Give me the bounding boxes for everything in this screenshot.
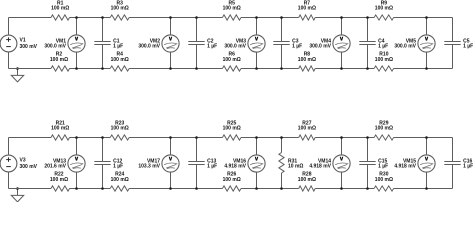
node VM2 top junction: [169, 16, 172, 19]
label C5 value: [463, 39, 473, 50]
voltmeter VM15: [418, 138, 435, 189]
node C12 bottom junction: [101, 187, 104, 190]
svg-text:300 mV: 300 mV: [20, 44, 38, 50]
resistor R5: [222, 15, 241, 20]
svg-text:V1: V1: [20, 37, 26, 43]
resistor R2: [51, 66, 70, 71]
wire bottom rail segment 3 (bottom circuit): [129, 188, 222, 190]
node C12 top junction: [101, 136, 104, 139]
label R21 value: [51, 120, 69, 131]
svg-text:100 mΩ: 100 mΩ: [111, 57, 129, 63]
svg-text:300.0 mV: 300.0 mV: [224, 44, 246, 50]
svg-text:100 mΩ: 100 mΩ: [298, 126, 316, 132]
svg-text:1 µF: 1 µF: [113, 44, 123, 50]
node C1 top junction: [101, 16, 104, 19]
label VM5 reading: [394, 39, 416, 50]
label V1 value: [20, 37, 38, 50]
svg-text:1 µF: 1 µF: [378, 44, 388, 50]
resistor R6: [222, 66, 241, 71]
label R8 value: [298, 52, 316, 64]
node VM13 top junction: [75, 136, 78, 139]
svg-text:100 mΩ: 100 mΩ: [223, 57, 241, 63]
svg-text:4.918 mV: 4.918 mV: [394, 164, 416, 170]
label R3 value: [111, 0, 129, 11]
wire bottom rail segment 5 (top circuit): [315, 68, 374, 70]
voltmeter VM4: [333, 18, 350, 69]
node VM3 bottom junction: [255, 67, 258, 70]
label R31 value: [288, 159, 303, 170]
resistor R24: [110, 186, 129, 191]
label R26 value: [223, 172, 241, 184]
wire top rail segment 4 (bottom circuit): [241, 137, 299, 139]
wire bottom rail segment 6 (top circuit): [394, 68, 453, 70]
label R5 value: [223, 0, 241, 11]
svg-text:1 µF: 1 µF: [463, 44, 473, 50]
node C13 bottom junction: [195, 187, 198, 190]
label VM15 reading: [394, 159, 416, 170]
label C4 value: [378, 39, 388, 50]
wire bottom rail segment 3 (top circuit): [129, 68, 222, 70]
capacitor C1: [94, 18, 110, 69]
capacitor C16: [444, 138, 460, 189]
wire bottom rail segment 4 (bottom circuit): [241, 188, 299, 190]
voltmeter VM13: [68, 138, 85, 189]
svg-text:1 µF: 1 µF: [292, 44, 302, 50]
voltmeter VM1: [68, 18, 85, 69]
node ground junction: [16, 187, 19, 190]
node VM2 bottom junction: [169, 67, 172, 70]
wire top rail segment 3 (top circuit): [129, 17, 222, 19]
capacitor C5: [444, 18, 460, 69]
svg-text:1 µF: 1 µF: [113, 164, 123, 170]
svg-text:100 mΩ: 100 mΩ: [223, 6, 241, 12]
label R6 value: [223, 52, 241, 64]
label R1 value: [51, 0, 69, 11]
voltage source V3: [0, 138, 17, 189]
node C15 bottom junction: [366, 187, 369, 190]
node VM1 top junction: [75, 16, 78, 19]
svg-text:100 mΩ: 100 mΩ: [50, 177, 68, 183]
label VM17 reading: [138, 159, 160, 170]
node VM14 top junction: [340, 136, 343, 139]
label C1 value: [113, 39, 123, 50]
resistor R8: [299, 66, 316, 71]
node VM15 top junction: [425, 136, 428, 139]
resistor R3: [110, 15, 129, 20]
label R10 value: [375, 52, 393, 64]
svg-text:10 mΩ: 10 mΩ: [288, 164, 303, 170]
capacitor C2: [188, 18, 204, 69]
ground: [11, 69, 23, 82]
label C3 value: [292, 39, 302, 50]
voltmeter VM2: [162, 18, 179, 69]
svg-text:4.918 mV: 4.918 mV: [309, 164, 331, 170]
resistor R21: [51, 135, 70, 140]
label R27 value: [298, 120, 316, 131]
node C2 top junction: [195, 16, 198, 19]
node C13 top junction: [195, 136, 198, 139]
wire bottom rail segment 6 (bottom circuit): [394, 188, 453, 190]
wire top rail segment 3 (bottom circuit): [129, 137, 222, 139]
wire bottom rail segment 2 (bottom circuit): [70, 188, 111, 190]
label R22 value: [50, 172, 68, 184]
wire bottom rail segment 2 (top circuit): [70, 68, 111, 70]
node C4 bottom junction: [366, 67, 369, 70]
svg-text:100 mΩ: 100 mΩ: [375, 6, 393, 12]
capacitor C15: [359, 138, 375, 189]
capacitor C4: [359, 18, 375, 69]
node VM16 top junction: [255, 136, 258, 139]
svg-text:201.6 mV: 201.6 mV: [44, 164, 66, 170]
svg-text:103.3 mV: 103.3 mV: [138, 164, 160, 170]
svg-text:100 mΩ: 100 mΩ: [111, 177, 129, 183]
wire top rail segment 1 (top circuit): [9, 17, 52, 19]
node VM3 top junction: [255, 16, 258, 19]
resistor R30: [374, 186, 394, 191]
svg-text:300.0 mV: 300.0 mV: [309, 44, 331, 50]
ground: [11, 189, 23, 202]
resistor R1: [51, 15, 70, 20]
svg-text:100 mΩ: 100 mΩ: [50, 57, 68, 63]
svg-text:100 mΩ: 100 mΩ: [375, 126, 393, 132]
svg-text:100 mΩ: 100 mΩ: [375, 57, 393, 63]
wire bottom rail segment 1 (bottom circuit): [9, 188, 52, 190]
wire top rail segment 6 (top circuit): [394, 17, 453, 19]
label VM16 reading: [224, 159, 246, 170]
resistor R25: [222, 135, 241, 140]
wire top rail segment 4 (top circuit): [241, 17, 299, 19]
label R28 value: [298, 172, 316, 184]
resistor R31 (shunt): [279, 138, 284, 189]
label VM13 reading: [44, 159, 66, 170]
svg-text:100 mΩ: 100 mΩ: [111, 126, 129, 132]
resistor R26: [222, 186, 241, 191]
node R31 bottom junction: [280, 187, 283, 190]
label VM4 reading: [309, 39, 331, 50]
resistor R10: [374, 66, 394, 71]
label R7 value: [298, 0, 316, 11]
label R24 value: [111, 172, 129, 184]
label C13 value: [207, 159, 217, 170]
resistor R4: [110, 66, 129, 71]
voltage source V1: [0, 18, 17, 69]
wire bottom rail segment 5 (bottom circuit): [315, 188, 374, 190]
node VM16 bottom junction: [255, 187, 258, 190]
wire top rail segment 5 (bottom circuit): [315, 137, 374, 139]
wire top rail segment 2 (bottom circuit): [70, 137, 111, 139]
svg-text:100 mΩ: 100 mΩ: [111, 6, 129, 12]
node VM15 bottom junction: [425, 187, 428, 190]
node C2 bottom junction: [195, 67, 198, 70]
node C1 bottom junction: [101, 67, 104, 70]
node C3 top junction: [280, 16, 283, 19]
label R2 value: [50, 52, 68, 64]
node C3 bottom junction: [280, 67, 283, 70]
voltmeter VM5: [418, 18, 435, 69]
svg-text:100 mΩ: 100 mΩ: [51, 6, 69, 12]
node VM17 bottom junction: [169, 187, 172, 190]
svg-text:100 mΩ: 100 mΩ: [298, 57, 316, 63]
svg-text:100 mΩ: 100 mΩ: [298, 6, 316, 12]
label C12 value: [113, 159, 123, 170]
label V3 value: [20, 157, 38, 170]
voltmeter VM16: [248, 138, 265, 189]
label R23 value: [111, 120, 129, 131]
resistor R22: [51, 186, 70, 191]
node VM4 top junction: [340, 16, 343, 19]
svg-text:1 µF: 1 µF: [207, 44, 217, 50]
node VM4 bottom junction: [340, 67, 343, 70]
svg-text:100 mΩ: 100 mΩ: [223, 126, 241, 132]
label VM14 reading: [309, 159, 331, 170]
node VM5 bottom junction: [425, 67, 428, 70]
svg-text:100 mΩ: 100 mΩ: [375, 177, 393, 183]
svg-text:V3: V3: [20, 157, 26, 163]
node VM17 top junction: [169, 136, 172, 139]
resistor R27: [299, 135, 316, 140]
label VM3 reading: [224, 39, 246, 50]
label R9 value: [375, 0, 393, 11]
label R30 value: [375, 172, 393, 184]
svg-text:1 µF: 1 µF: [463, 164, 473, 170]
wire top rail segment 1 (bottom circuit): [9, 137, 52, 139]
node C4 top junction: [366, 16, 369, 19]
svg-text:100 mΩ: 100 mΩ: [51, 126, 69, 132]
label VM1 reading: [44, 39, 66, 50]
wire top rail segment 6 (bottom circuit): [394, 137, 453, 139]
svg-text:300.0 mV: 300.0 mV: [44, 44, 66, 50]
wire top rail segment 5 (top circuit): [315, 17, 374, 19]
voltmeter VM17: [162, 138, 179, 189]
node VM14 bottom junction: [340, 187, 343, 190]
resistor R28: [299, 186, 316, 191]
resistor R29: [374, 135, 394, 140]
voltmeter VM14: [333, 138, 350, 189]
label C16 value: [463, 159, 473, 170]
resistor R9: [374, 15, 394, 20]
label C15 value: [378, 159, 388, 170]
wire bottom rail segment 1 (top circuit): [9, 68, 52, 70]
svg-text:300.0 mV: 300.0 mV: [394, 44, 416, 50]
capacitor C13: [188, 138, 204, 189]
label R29 value: [375, 120, 393, 131]
label R25 value: [223, 120, 241, 131]
voltmeter VM3: [248, 18, 265, 69]
capacitor C3: [273, 18, 289, 69]
wire top rail segment 2 (top circuit): [70, 17, 111, 19]
capacitor C12: [94, 138, 110, 189]
label VM2 reading: [138, 39, 160, 50]
node VM13 bottom junction: [75, 187, 78, 190]
svg-text:1 µF: 1 µF: [207, 164, 217, 170]
label C2 value: [207, 39, 217, 50]
svg-text:300 mV: 300 mV: [20, 164, 38, 170]
wire bottom rail segment 4 (top circuit): [241, 68, 299, 70]
node ground junction: [16, 67, 19, 70]
svg-text:300.0 mV: 300.0 mV: [138, 44, 160, 50]
label R4 value: [111, 52, 129, 64]
resistor R7: [299, 15, 316, 20]
svg-text:100 mΩ: 100 mΩ: [298, 177, 316, 183]
svg-text:1 µF: 1 µF: [378, 164, 388, 170]
node C15 top junction: [366, 136, 369, 139]
node VM5 top junction: [425, 16, 428, 19]
svg-text:100 mΩ: 100 mΩ: [223, 177, 241, 183]
resistor R23: [110, 135, 129, 140]
node VM1 bottom junction: [75, 67, 78, 70]
node R31 top junction: [280, 136, 283, 139]
svg-text:4.918 mV: 4.918 mV: [224, 164, 246, 170]
